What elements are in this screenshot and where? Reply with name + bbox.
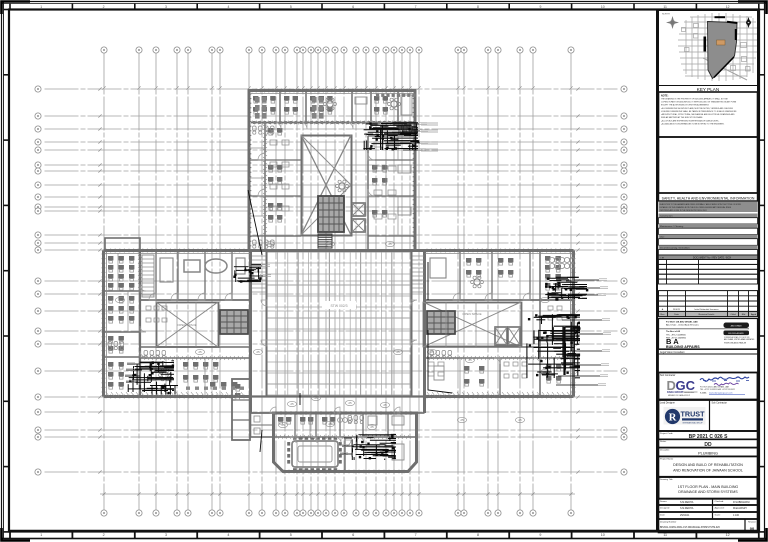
svg-text:25: 25	[468, 358, 472, 362]
svg-text:Lead Designer: Lead Designer	[660, 402, 675, 405]
top wing outline	[249, 91, 415, 251]
drawing title row	[659, 477, 758, 499]
dimension tick marks	[98, 86, 579, 495]
left wing workstation desks	[183, 362, 218, 382]
svg-text:TRUST: TRUST	[681, 409, 706, 418]
partition extra detail lines	[118, 136, 476, 437]
revision cloud right wing	[549, 257, 574, 268]
threshold dots along corridor wall	[253, 121, 412, 124]
svg-text:TEL +9712 4448800: TEL +9712 4448800	[666, 334, 687, 336]
riser vertical main	[563, 327, 565, 375]
svg-text:-ALL LEVELS ARE EXPRESSED IN M: -ALL LEVELS ARE EXPRESSED IN METERS ABOV…	[661, 119, 720, 122]
bottom wall hatch right wing	[427, 392, 570, 396]
project name row	[659, 456, 758, 477]
right wing OPEN SPACE X-room	[424, 303, 522, 347]
svg-text:M.ELMASRY: M.ELMASRY	[733, 507, 747, 510]
top wing elevator core	[318, 196, 344, 232]
svg-text:2: 2	[103, 533, 105, 537]
svg-text:SIMILAR MATTERS AT THE EXECUTI: SIMILAR MATTERS AT THE EXECUTION PHASE.	[661, 116, 703, 119]
svg-text:Date:: Date:	[660, 513, 666, 516]
gray label: use	[659, 235, 758, 239]
svg-text:KEY PLAN: KEY PLAN	[697, 87, 719, 92]
bottom band left extension	[251, 413, 274, 437]
svg-text:NOTE:: NOTE:	[661, 95, 669, 98]
document table rows	[659, 260, 758, 265]
status row	[659, 439, 758, 447]
left wing elevator core	[220, 310, 248, 334]
corridor stair rungs left of courtyard	[252, 256, 266, 292]
svg-text:25: 25	[518, 418, 522, 422]
safety header	[659, 193, 758, 201]
top wing lobby band	[265, 235, 301, 237]
bottom wing partitions	[274, 413, 416, 471]
svg-text:6: 6	[352, 5, 354, 9]
svg-text:Angal Vision Consultant: Angal Vision Consultant	[660, 351, 685, 354]
svg-text:Decommissioning / Demolition:: Decommissioning / Demolition:	[660, 247, 690, 250]
svg-text:Drawing Title: Drawing Title	[660, 478, 673, 481]
svg-text:DESIGN AND BUILD OF REHABILITA: DESIGN AND BUILD OF REHABILITATION	[673, 463, 743, 467]
bottom ruler strip	[2, 531, 766, 539]
left wing stair strip	[142, 255, 154, 297]
svg-text:1: 1	[40, 533, 42, 537]
svg-text:Chkd: Chkd	[730, 314, 736, 316]
svg-text:BUILDING AFFAIRS: BUILDING AFFAIRS	[666, 345, 700, 349]
svg-text:Checked:: Checked:	[715, 501, 725, 503]
svg-text:DOCUMENT No / REV DATE / BOX: DOCUMENT No / REV DATE / BOX	[693, 256, 732, 259]
svg-text:1ST FLOOR PLAN - MAIN BUILDING: 1ST FLOOR PLAN - MAIN BUILDING	[678, 485, 739, 489]
revision header row	[659, 311, 758, 316]
svg-text:00: 00	[750, 526, 755, 531]
consultant empty space	[659, 354, 758, 373]
svg-text:9: 9	[539, 5, 541, 9]
revision table	[659, 291, 758, 317]
pipe cluster: top wing right	[363, 122, 428, 150]
svg-text:25: 25	[256, 350, 260, 354]
svg-text:25/4/21: 25/4/21	[673, 309, 681, 311]
svg-text:PLUMBING: PLUMBING	[698, 451, 718, 455]
right wing furniture	[430, 258, 446, 278]
KEY PLAN label bar	[659, 86, 758, 93]
corridor door arcs along courtyard	[261, 300, 267, 306]
pipe cluster: bottom wing room	[340, 434, 396, 460]
svg-text:E-MAIL:: E-MAIL:	[700, 392, 708, 395]
svg-text:Project Code: Project Code	[660, 432, 673, 435]
project code row	[659, 431, 758, 439]
svg-text:8: 8	[477, 5, 479, 9]
svg-text:10: 10	[601, 533, 605, 537]
svg-text:ABU DHABI, UNITED ARAB EMIRATE: ABU DHABI, UNITED ARAB EMIRATES	[724, 338, 755, 341]
svg-text:1:100: 1:100	[733, 514, 740, 517]
key plan street grid	[678, 13, 757, 81]
drawn/checked table	[659, 499, 758, 505]
svg-text:Date: Date	[674, 313, 679, 316]
right ruler strip	[759, 2, 765, 539]
svg-text:S.M.REDHA: S.M.REDHA	[680, 501, 694, 504]
svg-text:COPIED IN PART OR AS A WHOLE,: COPIED IN PART OR AS A WHOLE, IT REPRODU…	[661, 101, 737, 104]
svg-text:STW 002/3: STW 002/3	[331, 304, 348, 308]
mid-band sprinkles	[146, 306, 562, 378]
svg-text:3: 3	[165, 5, 167, 9]
horizontal grid lines	[45, 89, 618, 472]
svg-text:Revision Details: Revision Details	[699, 313, 716, 316]
svg-text:WWW.DMA.ABUDHABI.AE: WWW.DMA.ABUDHABI.AE	[724, 342, 747, 345]
svg-text:THE DRAWING IS THE PROPERTY OF: THE DRAWING IS THE PROPERTY OF BUILDING …	[661, 98, 728, 101]
pipe cluster: right wing upper	[545, 277, 608, 300]
svg-text:A: A	[662, 308, 664, 311]
left wing classroom desks	[108, 256, 134, 290]
extra desk stacks in top band	[255, 97, 267, 119]
safety gray paragraph	[659, 202, 758, 213]
lead designer row	[659, 400, 758, 431]
top wing top rooms band	[251, 122, 414, 124]
svg-text:construction: construction	[684, 391, 694, 394]
svg-text:EXCEPT THE AUTHORIZED BY WRITT: EXCEPT THE AUTHORIZED BY WRITTEN AGREEME…	[661, 104, 710, 107]
right wing twin X shafts	[495, 327, 507, 345]
svg-text:25: 25	[281, 423, 285, 427]
top wing furniture	[253, 96, 276, 114]
window mullion ticks on exterior walls	[252, 89, 412, 93]
svg-text:Revision: Revision	[748, 521, 756, 523]
svg-text:6: 6	[352, 533, 354, 537]
svg-text:25/04/21: 25/04/21	[680, 514, 690, 517]
left wing meeting tables	[160, 258, 173, 282]
bottom-left annex rooms	[232, 379, 250, 440]
svg-text:25: 25	[198, 350, 202, 354]
svg-text:BP2021-C026S-DWG-1ST-DRAINAGE-: BP2021-C026S-DWG-1ST-DRAINAGE-STRMSYSTM-…	[660, 526, 720, 529]
svg-text:2: 2	[103, 5, 105, 9]
svg-text:P.O BOX 43210 ABU DHABI, UAE: P.O BOX 43210 ABU DHABI, UAE	[700, 386, 730, 389]
corridor stair rungs right of courtyard	[413, 256, 425, 292]
svg-text:Construction:: Construction:	[660, 215, 673, 218]
svg-text:OPEN SPACE: OPEN SPACE	[462, 312, 481, 316]
svg-text:7: 7	[415, 5, 417, 9]
bottom wing outline	[274, 413, 417, 472]
svg-text:5: 5	[290, 533, 292, 537]
svg-text:-ARCHITECTURAL, STRUCTURAL, ME: -ARCHITECTURAL, STRUCTURAL, MECHANICAL A…	[661, 113, 735, 116]
door arcs	[140, 122, 540, 446]
svg-text:Drawing Number: Drawing Number	[660, 520, 677, 523]
title block outer	[657, 10, 759, 532]
key plan north compass	[666, 16, 679, 29]
svg-text:-ALL DIMENSIONS SHOWN IN PLANS: -ALL DIMENSIONS SHOWN IN PLANS, MUST BE …	[661, 107, 734, 110]
key plan highlighted building	[717, 40, 726, 45]
right wing partitions	[425, 252, 573, 396]
gray label: construction	[659, 214, 758, 218]
svg-text:Designed:: Designed:	[660, 507, 670, 509]
svg-text:S.M.REDHA: S.M.REDHA	[680, 507, 694, 510]
svg-text:P.O BOX 128 ABU DHABI, UAE: P.O BOX 128 ABU DHABI, UAE	[666, 321, 698, 324]
gray label: maintenance	[659, 224, 758, 228]
svg-text:Sub Contractor: Sub Contractor	[712, 402, 728, 405]
drawing number row	[659, 519, 758, 533]
key plan site polygon	[708, 22, 738, 79]
svg-text:1: 1	[40, 5, 42, 9]
horizontal grid bubbles	[35, 86, 627, 475]
consultant label row	[659, 350, 758, 355]
svg-text:3: 3	[165, 533, 167, 537]
svg-text:25: 25	[118, 298, 122, 302]
courtyard side walls	[251, 251, 425, 414]
room number ovals	[115, 241, 549, 429]
svg-text:Scale:: Scale:	[715, 514, 721, 516]
gray label: decommissioning	[659, 245, 758, 249]
svg-text:25: 25	[543, 298, 547, 302]
svg-text:5: 5	[290, 5, 292, 9]
svg-text:AND RENOVATION OF JAWAAN SCHOO: AND RENOVATION OF JAWAAN SCHOOL	[673, 468, 743, 472]
svg-text:25: 25	[460, 418, 464, 422]
document table header	[659, 255, 758, 260]
BA building affairs block	[659, 319, 758, 350]
svg-text:IDENTIFIED AND GUIDE IN THE DE: IDENTIFIED AND GUIDE IN THE DESIGN PROCE…	[660, 209, 708, 212]
svg-text:SAFETY, HEALTH AND ENVIRONMENT: SAFETY, HEALTH AND ENVIRONMENTAL INFORMA…	[662, 196, 755, 200]
courtyard tile grid	[267, 252, 412, 396]
pipe cluster: center-left small	[233, 264, 271, 282]
svg-text:BUILDING AFFAIRS: BUILDING AFFAIRS	[728, 332, 744, 335]
key plan site heavy edges	[705, 17, 738, 77]
svg-text:25: 25	[396, 350, 400, 354]
svg-text:IN ADDITION TO THE HAZARDS AND: IN ADDITION TO THE HAZARDS AND RISKS NOR…	[660, 203, 742, 206]
svg-text:25: 25	[388, 242, 392, 246]
bottom wall hatch left wing	[106, 392, 244, 396]
svg-text:DANA GROUP: DANA GROUP	[667, 391, 684, 394]
svg-text:Initial Submittal Issuance: Initial Submittal Issuance	[694, 308, 719, 311]
svg-text:INTERNATIONAL GROUP: INTERNATIONAL GROUP	[683, 421, 704, 424]
svg-text:Discipline: Discipline	[660, 449, 670, 451]
svg-text:Maintenance / Cleaning:: Maintenance / Cleaning:	[660, 225, 684, 228]
svg-text:R: R	[669, 412, 677, 423]
top wing staircase X-void	[302, 136, 352, 236]
svg-text:The Best of All: The Best of All	[666, 330, 680, 333]
svg-text:7: 7	[415, 533, 417, 537]
corridor 396-413 door arcs	[270, 407, 276, 413]
svg-text:OPEN SPACE: OPEN SPACE	[177, 323, 196, 327]
empty spare box	[659, 137, 758, 193]
svg-text:25: 25	[328, 242, 332, 246]
key plan box	[659, 11, 758, 86]
TRUST logo	[664, 407, 706, 425]
courtyard label STW 002/3	[322, 301, 356, 309]
svg-text:8: 8	[477, 533, 479, 537]
svg-text:-ALL AND ABOUT DISCREPANCIES T: -ALL AND ABOUT DISCREPANCIES TO BE NOTIF…	[661, 122, 725, 125]
key plan compass topright	[746, 17, 750, 28]
round tables with chairs	[324, 98, 337, 110]
pipe cluster: left wing bottom	[125, 361, 174, 395]
pipe cluster: right wing main riser	[527, 314, 611, 385]
top ruler strip	[2, 4, 766, 10]
corridor under courtyard walls	[251, 412, 425, 414]
svg-text:DETAILED ON THIS DRAWING NOTE: DETAILED ON THIS DRAWING NOTE THE FOLLOW…	[660, 206, 732, 209]
misc pipe drops	[248, 190, 452, 452]
svg-text:-FIGURED DIMENSIONS SHALL BE T: -FIGURED DIMENSIONS SHALL BE TAKEN IN PR…	[661, 110, 737, 113]
svg-text:Approved:: Approved:	[715, 506, 725, 509]
svg-text:4: 4	[227, 533, 229, 537]
DGC sub contractor block	[659, 373, 758, 400]
top wing right room stack	[368, 136, 414, 250]
vertical grid lines	[104, 54, 571, 510]
chair row top-right classroom	[376, 94, 416, 97]
left ruler strip	[4, 2, 10, 539]
left wing partitions	[104, 252, 250, 396]
svg-text:Status: Status	[660, 440, 667, 443]
extra chairs row left wing bottom room	[186, 387, 244, 390]
svg-text:11: 11	[663, 533, 667, 537]
svg-text:R.SUBRAMANI: R.SUBRAMANI	[733, 501, 750, 504]
svg-text:9: 9	[539, 533, 541, 537]
toilet fixtures rows	[108, 126, 452, 424]
svg-text:Project Name: Project Name	[660, 457, 674, 460]
extra interior detail marks	[270, 140, 396, 219]
svg-text:25: 25	[383, 403, 387, 407]
svg-text:Sub Contractor: Sub Contractor	[660, 374, 676, 377]
vertical grid bubbles	[101, 47, 574, 516]
notes box	[659, 92, 758, 137]
svg-text:NORTH: NORTH	[662, 14, 670, 16]
svg-text:ABU DHABI: ABU DHABI	[731, 324, 742, 327]
discipline row	[659, 448, 758, 457]
svg-text:25: 25	[290, 402, 294, 406]
svg-text:10: 10	[601, 5, 605, 9]
svg-text:TEL +9712 5553311 FAX +9712 5: TEL +9712 5553311 FAX +9712 5553322	[700, 388, 735, 391]
svg-text:Abu Dhabi - United Arab Emirat: Abu Dhabi - United Arab Emirates	[666, 324, 700, 327]
svg-text:4: 4	[227, 5, 229, 9]
svg-text:25: 25	[348, 401, 352, 405]
bottom wing conference table	[292, 441, 338, 467]
bottom wing small fixtures	[278, 417, 291, 424]
svg-text:MEMBER OF DANA GROUP: MEMBER OF DANA GROUP	[668, 394, 691, 397]
bottom dimension line	[100, 493, 575, 495]
svg-text:Drawn:: Drawn:	[660, 500, 667, 503]
top wing twin X shafts	[352, 203, 365, 216]
left cluster drop comb	[150, 385, 178, 395]
left wing OPEN SPACE X-room	[157, 303, 219, 348]
middle band outer walls	[104, 251, 574, 397]
right wing elevator core	[427, 311, 455, 334]
stair treads below elevator (top wing)	[318, 234, 332, 247]
svg-text:25: 25	[370, 425, 374, 429]
double wall inner lines	[104, 94, 573, 397]
svg-text:DRAINAGE AND STORM SYSTEMS: DRAINAGE AND STORM SYSTEMS	[678, 490, 738, 494]
svg-text:12: 12	[726, 533, 730, 537]
revision cloud bottom right	[338, 418, 353, 423]
left edge annex	[105, 238, 140, 251]
top wing left room stack	[249, 122, 301, 250]
svg-text:Appd: Appd	[751, 313, 757, 316]
DGC arabic lines (vector squiggle)	[700, 377, 749, 381]
svg-text:25: 25	[314, 396, 318, 400]
